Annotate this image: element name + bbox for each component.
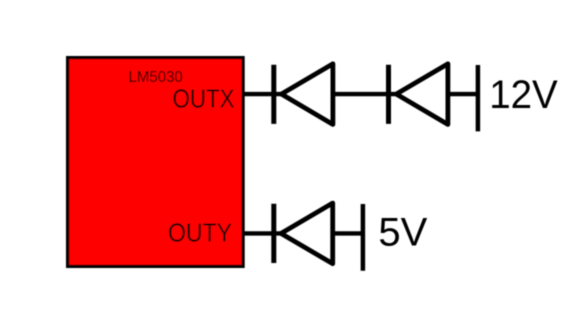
svg-text:OUTX: OUTX (173, 86, 235, 114)
wire D1 anode to D2 cathode (333, 92, 398, 96)
wire D2 anode to 12V terminal (448, 92, 478, 96)
5V terminal bar (361, 204, 366, 271)
svg-text:12V: 12V (489, 73, 558, 117)
12V terminal bar (476, 65, 481, 131)
diode D1 triangle (281, 64, 333, 125)
IC U1 LM5030 body (68, 58, 244, 267)
wire OUTX pin to D1 cathode (243, 92, 283, 96)
diode D1 cathode bar (271, 65, 276, 124)
svg-text:5V: 5V (378, 211, 427, 255)
diode D2 cathode bar (386, 65, 391, 124)
wire OUTY pin to D3 cathode (243, 231, 283, 235)
svg-text:LM5030: LM5030 (129, 69, 183, 86)
diode D3 triangle (281, 203, 333, 264)
wire D3 anode to 5V terminal (333, 231, 363, 235)
svg-text:OUTY: OUTY (168, 220, 232, 248)
diode D2 triangle (396, 64, 448, 125)
diode D3 cathode bar (271, 204, 276, 263)
